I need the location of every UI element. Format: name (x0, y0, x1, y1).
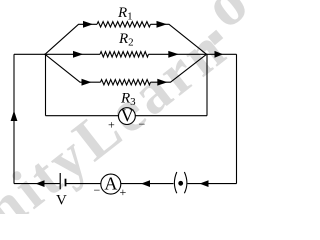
arrow bottom middle (141, 180, 150, 187)
wire: voltmeter loop left vertical (45, 54, 47, 115)
node B (right junction) (206, 54, 208, 56)
arrow R1 left (83, 21, 93, 28)
battery cell: short plate (-) (65, 179, 67, 187)
wire: left vertical (13, 54, 15, 183)
svg-text:V: V (56, 193, 67, 209)
plug key dot (178, 181, 183, 186)
wire: R3 branch (45, 54, 207, 82)
svg-text:R1: R1 (117, 5, 133, 23)
arrow R2 right (168, 51, 179, 58)
arrow up on left wire (11, 111, 18, 122)
wire: bottom segments (14, 183, 237, 185)
svg-text:+: + (108, 118, 115, 132)
svg-text:−: − (139, 117, 146, 131)
resistor R2 (100, 52, 149, 57)
svg-text:+: + (120, 185, 127, 199)
resistor R3 (101, 80, 151, 85)
arrow bottom left (near battery) (36, 180, 45, 187)
plug key right arc (184, 172, 187, 193)
arrow bottom right (200, 180, 209, 187)
arrow R3 right (157, 79, 167, 86)
arrow R2 left (73, 51, 83, 58)
wire: R2 branch (45, 53, 207, 55)
wire: voltmeter loop bottom (46, 115, 208, 117)
voltmeter V (119, 108, 136, 125)
resistor R1 (97, 22, 151, 27)
ammeter A (101, 174, 121, 194)
wire: right vertical (236, 54, 238, 183)
wire: R1 branch (45, 24, 207, 54)
battery cell: long plate (+) (59, 173, 61, 189)
arrow R3 left (82, 79, 92, 86)
wire: top-right horizontal (207, 53, 237, 55)
node A (left junction) (44, 54, 46, 56)
plug key left arc (174, 172, 176, 193)
arrow R1 right (157, 21, 168, 28)
arrow top right (215, 51, 224, 58)
wire: top-left horizontal (14, 53, 45, 55)
svg-text:A: A (104, 173, 117, 193)
wire: voltmeter loop right vertical (206, 54, 208, 115)
svg-text:R2: R2 (118, 31, 134, 49)
svg-text:V: V (121, 105, 134, 125)
svg-text:−: − (94, 183, 101, 197)
